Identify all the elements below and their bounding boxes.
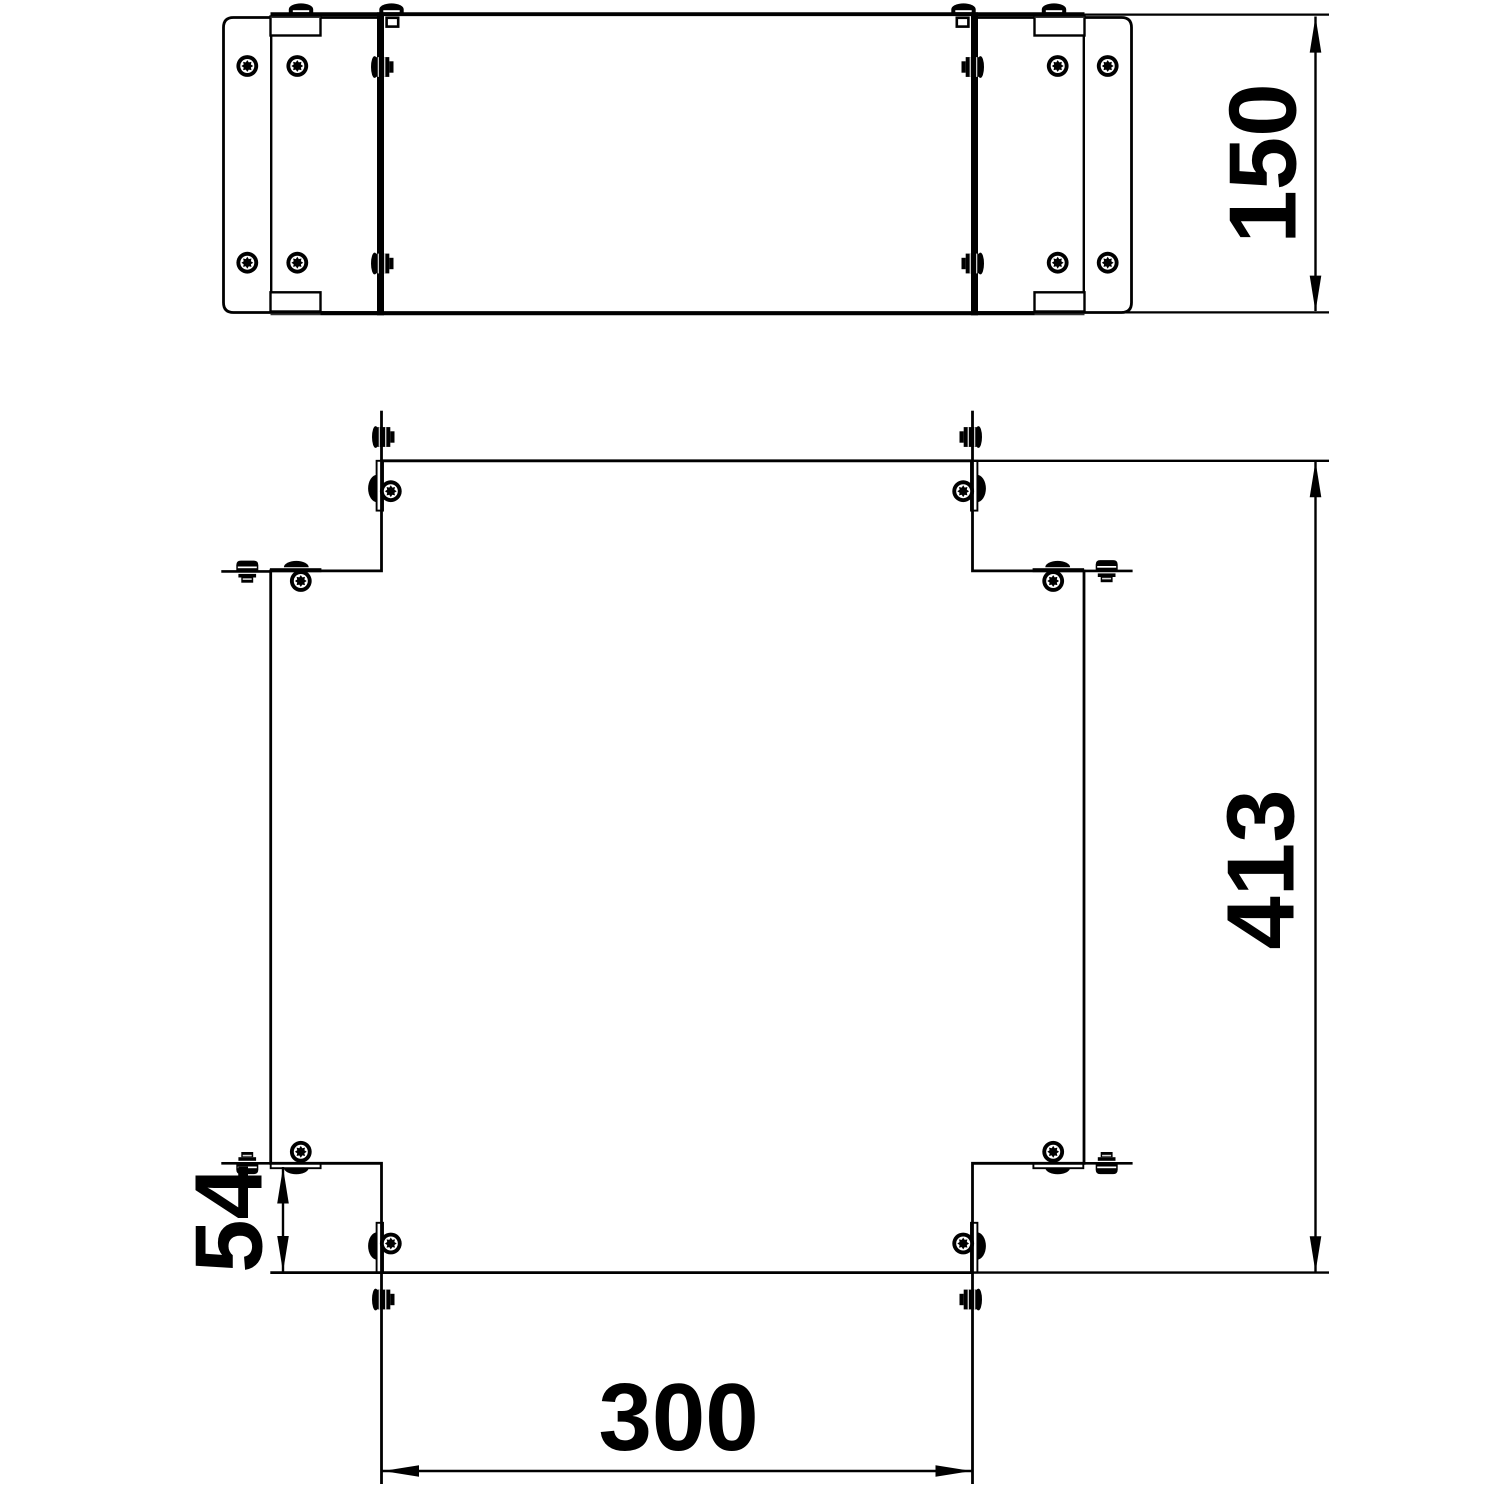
svg-text:300: 300 [599,1364,759,1471]
svg-text:413: 413 [1208,789,1315,949]
svg-text:54: 54 [176,1166,283,1273]
svg-text:150: 150 [1210,83,1317,243]
